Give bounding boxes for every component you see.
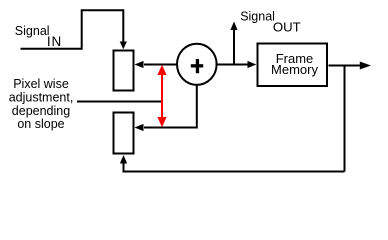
svg-text:Memory: Memory <box>271 62 318 77</box>
box B1 (upper adjustment box) <box>114 51 134 91</box>
wire: summing junction to box B1 <box>135 61 177 68</box>
wire: feedback branch down on right <box>344 66 346 172</box>
frame memory box <box>258 44 328 87</box>
svg-text:on slope: on slope <box>17 117 64 131</box>
summing junction circle <box>177 44 217 85</box>
label pointer line from text to red arrow <box>77 101 161 103</box>
wire: output branch up to Signal OUT <box>230 22 237 65</box>
wire: feedback bottom run <box>124 171 345 173</box>
svg-text:IN: IN <box>47 34 62 49</box>
box B2 (lower adjustment box) <box>114 113 134 154</box>
wire: summing junction output to frame memory <box>218 61 257 68</box>
plus sign <box>191 59 203 73</box>
Signal OUT label <box>240 9 301 34</box>
svg-text:depending: depending <box>12 104 70 118</box>
wire: feedback up into box B2 bottom <box>120 155 127 173</box>
red adjustment range double arrow <box>157 65 166 127</box>
svg-text:Signal: Signal <box>240 9 275 23</box>
wire: summing junction bottom to box B2 <box>135 86 197 132</box>
svg-text:OUT: OUT <box>273 20 301 35</box>
wire: Signal IN lead into box B1 <box>21 10 127 49</box>
Pixel wise adjustment label (4 lines, centered) <box>9 77 74 131</box>
svg-text:adjustment,: adjustment, <box>9 91 74 105</box>
wire: frame memory output with arrow <box>329 62 372 70</box>
svg-text:Signal: Signal <box>15 24 50 38</box>
svg-text:Pixel wise: Pixel wise <box>13 77 69 91</box>
Signal IN label <box>15 24 62 49</box>
